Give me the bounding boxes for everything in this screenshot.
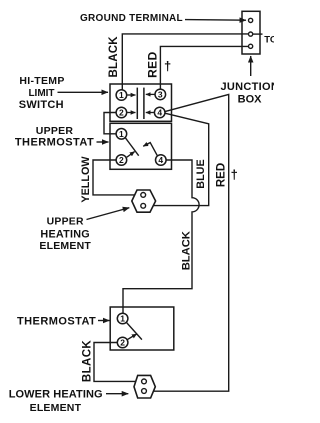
svg-text:2: 2 [119,108,124,118]
svg-text:1: 1 [120,314,125,324]
svg-text:ELEMENT: ELEMENT [30,402,82,414]
svg-text:1: 1 [119,90,124,100]
svg-text:BLACK: BLACK [108,36,120,78]
svg-text:2: 2 [120,338,125,348]
svg-text:HEATING: HEATING [40,228,90,240]
svg-text:†: † [164,58,171,73]
svg-text:THERMOSTAT: THERMOSTAT [15,137,94,149]
svg-text:ELEMENT: ELEMENT [39,240,91,252]
svg-text:YELLOW: YELLOW [80,156,92,203]
svg-text:BLACK: BLACK [81,340,93,383]
svg-text:LIMIT: LIMIT [28,88,54,99]
svg-text:LOWER HEATING: LOWER HEATING [9,389,103,401]
svg-text:BOX: BOX [238,93,263,105]
svg-text:UPPER: UPPER [36,125,74,137]
svg-text:RED: RED [145,51,159,78]
svg-text:RED: RED [216,163,228,187]
svg-text:1: 1 [119,129,124,139]
svg-text:TO: TO [264,35,274,46]
svg-text:SWITCH: SWITCH [19,99,64,111]
svg-text:JUNCTION: JUNCTION [221,81,275,93]
svg-text:HI-TEMP: HI-TEMP [19,75,64,87]
svg-text:2: 2 [119,155,124,165]
svg-text:BLUE: BLUE [195,159,207,188]
svg-text:BLACK: BLACK [181,231,193,270]
svg-text:4: 4 [157,108,162,118]
svg-text:GROUND TERMINAL: GROUND TERMINAL [80,13,183,24]
svg-text:UPPER: UPPER [47,216,84,227]
svg-text:†: † [231,167,238,182]
svg-text:4: 4 [158,155,163,165]
svg-text:THERMOSTAT: THERMOSTAT [17,316,96,328]
svg-text:3: 3 [158,90,163,100]
